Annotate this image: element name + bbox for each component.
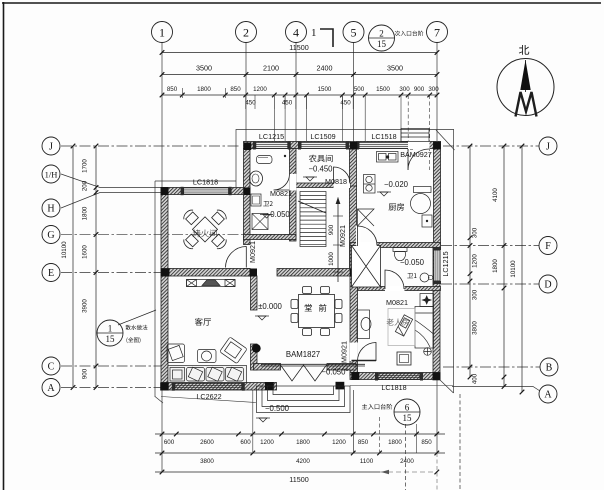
- old room wardrobe: [420, 294, 434, 307]
- scan border top: [2, 2, 601, 4]
- svg-text:M0821: M0821: [386, 298, 408, 307]
- wall hall-living divider upper: [251, 276, 258, 310]
- label bath1 text: [407, 273, 416, 278]
- label front hall text: [305, 304, 327, 312]
- kitchen corner pantry: [358, 209, 375, 226]
- axis circle 1/H: [42, 165, 60, 183]
- svg-text:1700: 1700: [82, 159, 89, 173]
- wall entry left: [254, 364, 281, 371]
- stair direction arrow: [337, 198, 339, 283]
- kitchen round stove/table: [411, 187, 432, 214]
- svg-text:2400: 2400: [400, 458, 414, 465]
- column round living room: [252, 344, 261, 353]
- detail mark 1/15: [97, 320, 123, 346]
- svg-text:11500: 11500: [289, 475, 308, 484]
- right dim chain inner: [469, 146, 471, 377]
- fire room table: [192, 217, 217, 242]
- svg-text:4200: 4200: [296, 458, 310, 465]
- label main-entrance steps text: [362, 404, 392, 410]
- wall bath1 bottom D: [358, 287, 441, 291]
- svg-text:3500: 3500: [387, 64, 403, 73]
- svg-text:600: 600: [240, 439, 251, 446]
- axis circle A left: [42, 379, 60, 397]
- svg-text:−0.050°: −0.050°: [321, 368, 348, 377]
- svg-text:1800: 1800: [82, 206, 89, 220]
- wall right exterior upper: [434, 142, 441, 246]
- axis J left: [61, 145, 240, 147]
- wall left exterior: [161, 188, 168, 391]
- grid circle 7: [427, 22, 448, 43]
- entry porch steps: [257, 386, 351, 413]
- north label text: [519, 45, 529, 55]
- svg-text:M0821: M0821: [270, 189, 292, 198]
- column grid5 x A: [336, 382, 345, 390]
- north arrow: [497, 45, 554, 117]
- label living room text: [195, 318, 211, 326]
- column grid2 x A: [265, 382, 274, 390]
- wall hall-living divider lower: [251, 344, 258, 370]
- svg-text:850: 850: [167, 86, 178, 93]
- elev marker kitchen: [380, 192, 388, 196]
- axis circle C left: [42, 357, 60, 375]
- svg-text:7: 7: [434, 25, 440, 39]
- axis circle H left: [42, 199, 60, 217]
- elev marker porch: [259, 418, 267, 422]
- svg-text:LC2622: LC2622: [196, 392, 221, 401]
- wall grid5 stairs-kitchen: [350, 186, 357, 276]
- svg-text:300: 300: [472, 289, 479, 300]
- label fire room text: [193, 229, 217, 237]
- door M0921 fire room: [226, 247, 247, 268]
- label apron detail text: [126, 325, 148, 330]
- column grid5 x E: [350, 269, 358, 277]
- dimension chain top majors: [162, 74, 437, 76]
- label tool room text: [309, 155, 333, 163]
- svg-text:−0.020: −0.020: [384, 180, 409, 189]
- wall 1/H top of fire room: [161, 188, 250, 195]
- axis circle D right: [539, 275, 557, 293]
- axis 1/H left: [61, 174, 161, 188]
- svg-text:LC1818: LC1818: [193, 178, 218, 187]
- fire room chairs: [182, 208, 229, 251]
- scan border left: [3, 2, 5, 490]
- svg-text:M0921: M0921: [248, 241, 257, 263]
- dimension chain top minors: [162, 94, 437, 96]
- svg-text:M0921: M0921: [340, 341, 349, 363]
- svg-text:4100: 4100: [492, 188, 499, 202]
- svg-text:600: 600: [164, 439, 175, 446]
- column grid2 x E: [250, 269, 258, 277]
- flue shaft with X: [352, 246, 381, 288]
- axis G left: [61, 234, 296, 236]
- bath1 toilet: [393, 248, 407, 261]
- svg-text:1: 1: [159, 25, 165, 39]
- svg-text:1200: 1200: [332, 439, 346, 446]
- svg-text:LC1818: LC1818: [381, 383, 406, 392]
- grid circle 4: [286, 22, 307, 43]
- svg-text:2100: 2100: [263, 64, 279, 73]
- svg-text:1/H: 1/H: [45, 170, 58, 180]
- svg-text:450: 450: [245, 100, 256, 107]
- bath1 basin: [420, 273, 429, 282]
- left dim chain total 10100: [72, 146, 74, 388]
- door BAM0927 kitchen rear: [408, 149, 429, 170]
- elev marker tool room: [306, 177, 314, 181]
- bottom extension lines: [252, 390, 254, 453]
- svg-text:450: 450: [340, 100, 351, 107]
- detail mark 2/15: [369, 25, 395, 51]
- svg-text:BAM0927: BAM0927: [400, 150, 432, 159]
- svg-text:LC1509: LC1509: [310, 132, 335, 141]
- svg-text:1800: 1800: [296, 439, 310, 446]
- svg-text:M0921: M0921: [338, 225, 347, 247]
- svg-text:850: 850: [358, 439, 369, 446]
- wall right exterior lower: [433, 246, 440, 377]
- svg-text:3900: 3900: [82, 299, 89, 313]
- column grid7 x J: [433, 142, 441, 150]
- kitchen small cabinet: [422, 215, 432, 227]
- svg-text:C: C: [48, 362, 55, 373]
- svg-text:1800: 1800: [197, 86, 211, 93]
- tv cabinet: [187, 280, 236, 287]
- axis circle J left: [42, 137, 60, 155]
- column old-room SW: [351, 372, 359, 380]
- bottom dim chain majors: [155, 452, 445, 454]
- wall bath2 bottom G: [244, 235, 297, 240]
- svg-text:M0818: M0818: [325, 177, 347, 186]
- svg-text:10100: 10100: [61, 241, 68, 259]
- window LC1818 fire room: [181, 187, 232, 195]
- svg-text:6: 6: [405, 403, 410, 413]
- svg-text:A: A: [544, 390, 552, 401]
- axis F right: [441, 245, 539, 247]
- wall E right segment: [277, 269, 357, 277]
- side entrance steps: [401, 129, 429, 142]
- svg-text:−0.500: −0.500: [265, 404, 290, 413]
- svg-text:J: J: [49, 142, 53, 153]
- svg-text:4: 4: [293, 25, 299, 39]
- column left x E: [161, 269, 170, 277]
- svg-text:850: 850: [230, 86, 241, 93]
- window LC1215 top: [253, 141, 291, 149]
- column grid2 x J: [244, 143, 252, 151]
- svg-text:1500: 1500: [376, 86, 390, 93]
- svg-text:1200: 1200: [260, 439, 274, 446]
- svg-text:B: B: [546, 363, 553, 374]
- door opening gaps: [289, 174, 296, 191]
- label side-entrance steps text: [395, 31, 424, 36]
- column grid2 x 1/H: [244, 188, 251, 196]
- svg-text:LC1215: LC1215: [259, 132, 284, 141]
- svg-text:0.050: 0.050: [270, 210, 290, 219]
- svg-text:F: F: [545, 241, 551, 252]
- svg-text:2: 2: [243, 25, 249, 39]
- svg-text:300: 300: [399, 86, 410, 93]
- svg-text:1200: 1200: [472, 254, 479, 268]
- dimension chain top total 11500: [162, 52, 437, 54]
- door BAM1827 folding entry: [261, 364, 365, 381]
- svg-text:1: 1: [311, 27, 317, 39]
- bottom dim chain minors: [155, 433, 445, 435]
- svg-text:1100: 1100: [360, 458, 374, 465]
- window LC2622 living room: [172, 382, 245, 390]
- svg-text:±0.000: ±0.000: [258, 302, 282, 311]
- axis circle E left: [42, 264, 60, 282]
- svg-text:−0.450: −0.450: [308, 165, 333, 174]
- column left x A: [160, 383, 169, 391]
- svg-text:300: 300: [428, 86, 439, 93]
- roof eave outline: [236, 130, 454, 188]
- door M0818 tool room: [334, 167, 351, 184]
- svg-text:1800: 1800: [388, 439, 402, 446]
- svg-text:LC1215: LC1215: [441, 251, 450, 276]
- bath2 basin: [250, 171, 263, 186]
- svg-text:E: E: [48, 268, 54, 279]
- svg-text:J: J: [546, 142, 550, 153]
- bath2 washer: [251, 194, 261, 206]
- svg-text:1: 1: [108, 324, 113, 334]
- svg-text:G: G: [47, 230, 54, 241]
- axis H left: [61, 193, 161, 209]
- svg-text:450: 450: [282, 100, 293, 107]
- axis circle F right: [539, 237, 557, 255]
- wall right of bath2: [290, 149, 297, 242]
- svg-text:2400: 2400: [317, 64, 333, 73]
- svg-text:300: 300: [472, 227, 479, 238]
- bath2 tub: [257, 156, 273, 164]
- svg-text:15: 15: [377, 39, 387, 49]
- wall top exterior: [244, 142, 441, 149]
- axis E left: [61, 272, 161, 274]
- grid circle 2: [236, 22, 257, 43]
- svg-text:2600: 2600: [200, 439, 214, 446]
- wall kitchen bottom F: [350, 243, 441, 248]
- window LC1818 old room: [375, 372, 423, 380]
- svg-text:BAM1827: BAM1827: [286, 350, 320, 359]
- right dim chain total 10100: [521, 146, 523, 392]
- svg-text:10100: 10100: [510, 260, 517, 278]
- wall toolroom bottom: [296, 183, 350, 188]
- right dim chain mid: [503, 146, 505, 288]
- svg-text:15: 15: [106, 334, 116, 344]
- axis D right: [441, 283, 539, 285]
- grid line 5: [353, 43, 355, 149]
- label old room text: [387, 318, 410, 325]
- axis C left: [61, 365, 161, 367]
- dining table: [291, 287, 342, 336]
- svg-text:400: 400: [472, 373, 479, 384]
- door bath1: [385, 270, 404, 289]
- svg-text:2: 2: [379, 29, 384, 39]
- grid line 2: [245, 43, 247, 149]
- wall grid5 upper: [350, 149, 357, 187]
- svg-text:3500: 3500: [196, 64, 212, 73]
- axis A left: [61, 387, 161, 389]
- svg-text:1000: 1000: [328, 252, 335, 266]
- stairs: [298, 192, 326, 247]
- svg-text:3800: 3800: [200, 458, 214, 465]
- elev marker hall: [258, 316, 266, 320]
- axis circle A right: [539, 385, 557, 403]
- wall E left segment: [161, 269, 250, 277]
- label kitchen text: [389, 203, 404, 211]
- window LC1518 top: [356, 141, 413, 149]
- door M0821 bath2: [274, 174, 290, 190]
- svg-text:1500: 1500: [318, 86, 332, 93]
- svg-text:H: H: [47, 204, 54, 215]
- svg-text:D: D: [544, 280, 551, 291]
- axis circle J right: [539, 137, 557, 155]
- grid circle 1: [152, 22, 173, 43]
- column grid7 x bottom: [433, 372, 441, 380]
- door M0821 old room: [358, 343, 377, 362]
- svg-text:900: 900: [328, 224, 335, 235]
- old room quilt: [388, 309, 415, 346]
- svg-text:11500: 11500: [289, 43, 308, 52]
- desk and chair: [357, 310, 371, 339]
- grid line 1: [161, 43, 163, 473]
- svg-text:3800: 3800: [472, 321, 479, 335]
- elev marker bath2: [263, 215, 270, 219]
- grid line 4: [295, 43, 297, 153]
- bath2 shower: [252, 214, 268, 230]
- wall bottom exterior right: [350, 373, 440, 380]
- axis J right: [443, 145, 539, 147]
- wall entry right: [327, 364, 356, 371]
- column left x 1/H: [161, 187, 169, 195]
- axis circle B right: [540, 358, 558, 376]
- wall bottom exterior left: [161, 383, 277, 391]
- wall left of upper block / bath2: [244, 149, 251, 245]
- svg-text:1800: 1800: [492, 259, 499, 273]
- sofa group: [167, 337, 247, 383]
- kitchen sink: [377, 152, 399, 163]
- svg-text:900: 900: [82, 368, 89, 379]
- old room table: [397, 352, 411, 365]
- svg-text:1600: 1600: [82, 245, 89, 259]
- label bath2 text: [263, 201, 272, 206]
- extension lines to wall: [181, 88, 183, 98]
- svg-text:LC1518: LC1518: [371, 132, 396, 141]
- door M0921 kitchen: [356, 226, 361, 246]
- svg-text:500: 500: [354, 86, 365, 93]
- kitchen stove: [364, 175, 376, 194]
- grid line 7: [436, 43, 438, 454]
- bottom dim total 11500: [155, 471, 380, 473]
- axis A right: [452, 387, 540, 392]
- svg-text:5: 5: [351, 25, 357, 39]
- old room bed: [415, 307, 434, 349]
- grid circle 5: [343, 22, 364, 43]
- wall left of shaft and old room: [350, 246, 358, 377]
- svg-text:200: 200: [82, 180, 89, 191]
- svg-text:850: 850: [421, 439, 432, 446]
- axis B right: [443, 366, 540, 368]
- wall stub E at grid 2: [244, 269, 251, 277]
- svg-text:1200: 1200: [253, 86, 267, 93]
- window LC1509 top: [298, 141, 349, 149]
- svg-text:A: A: [47, 383, 55, 394]
- axis circle G left: [42, 226, 60, 244]
- window LC1215 right wall: [433, 247, 441, 284]
- svg-text:900: 900: [414, 86, 425, 93]
- detail mark 6/15: [394, 399, 420, 425]
- old room floor drain: [424, 348, 432, 356]
- left dim chain inner: [95, 146, 97, 388]
- column grid5 x J: [350, 142, 358, 150]
- svg-text:15: 15: [403, 413, 413, 423]
